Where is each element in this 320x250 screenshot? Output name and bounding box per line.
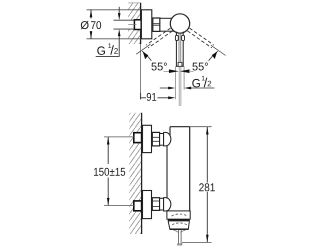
extension lines below lever	[174, 66, 176, 99]
G1/2 text (top-left)	[97, 46, 105, 55]
hex nut bottom (side view)	[152, 198, 159, 211]
bottom supply centerline / extension	[104, 205, 134, 207]
55° swing arc right segment	[207, 51, 217, 62]
S-union bottom (side view)	[160, 198, 164, 210]
top supply socket behind wall	[134, 133, 142, 143]
281 dimension line + arrows	[206, 127, 208, 183]
S-union top (side view)	[160, 134, 164, 146]
aerator dark bottom edge	[170, 228, 189, 230]
lever (top view)	[175, 32, 177, 67]
dashed lever position left	[148, 31, 172, 48]
supply pipe behind wall (top view)	[114, 19, 135, 21]
nipple fillet wings	[174, 230, 179, 232]
lever end cap	[178, 62, 182, 66]
hex nut (top view)	[153, 18, 160, 31]
lever side tabs	[175, 35, 178, 40]
55° text left	[150, 61, 169, 71]
91 dimension	[140, 93, 142, 100]
escutcheon bottom (side view)	[143, 191, 152, 219]
escutcheon top (side view)	[143, 125, 152, 152]
wall (top view) hatched band	[128, 3, 140, 44]
lever inner slot	[178, 33, 180, 62]
wall surface line (top view)	[140, 3, 142, 44]
aerator block	[168, 221, 189, 229]
55° swing arc left segment	[142, 51, 152, 62]
wall extension line down to 91 dim	[140, 44, 142, 100]
valve body circle (top view)	[170, 14, 189, 33]
55° text right	[191, 61, 210, 71]
hose nipple	[177, 230, 179, 245]
extension of left dashed line	[136, 44, 150, 54]
G1/2 right dimension arrows	[160, 87, 169, 89]
small width dimension (bowtie arrows)	[164, 70, 170, 72]
wall surface line (side view)	[141, 113, 143, 234]
faucet body (side view)	[170, 126, 190, 128]
bottom supply socket behind wall	[134, 201, 142, 211]
hex nut top (side view)	[152, 132, 159, 146]
dashed lever position right	[188, 31, 212, 48]
union socket behind wall	[134, 20, 141, 30]
S-union D-cap bottom	[164, 198, 171, 211]
escutcheon flange (top view)	[141, 10, 151, 39]
top supply centerline / extension	[104, 136, 134, 138]
dimension Ø70 line + arrows	[90, 10, 92, 19]
aerator dashed dome	[172, 223, 187, 225]
left arc arrowhead	[143, 52, 149, 59]
G1/2 top-left leader line + arrows	[118, 7, 120, 14]
outlet collar	[167, 211, 190, 219]
dimension Ø70 extension lines	[87, 9, 142, 11]
dimension text Ø70	[81, 21, 101, 29]
G1/2 text (right)	[192, 79, 200, 88]
wall top edge line	[128, 2, 140, 4]
connector tube (top view)	[160, 18, 173, 31]
extension of right dashed line	[211, 45, 226, 55]
supply pipe white mask	[114, 20, 135, 29]
281 dimension extension lines	[190, 126, 212, 128]
pipe centerline	[128, 24, 136, 26]
150±15 dimension	[107, 137, 109, 164]
right arc arrowhead	[212, 52, 217, 60]
collar dashed dome	[172, 214, 188, 216]
S-union D-cap top	[164, 132, 171, 146]
wall (side view) hatched band	[129, 113, 141, 234]
dark junction band	[168, 219, 190, 221]
